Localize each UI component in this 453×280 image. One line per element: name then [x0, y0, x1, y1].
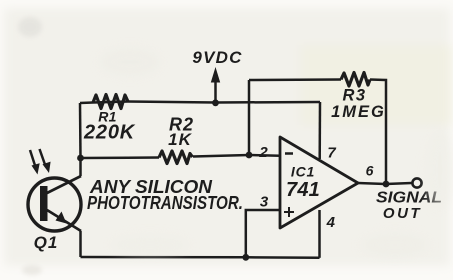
svg-text:6: 6 [366, 163, 374, 179]
transistor Q1: emitter lead [47, 210, 81, 231]
resistor R3 [341, 73, 370, 87]
terminal: signal out [412, 178, 421, 187]
node: Q1 collector / R2 junction [77, 155, 84, 162]
op-amp minus sign (inverting input) [285, 152, 293, 155]
svg-text:1K: 1K [168, 130, 192, 149]
wire: ground rail (bottom horizontal) [81, 256, 320, 259]
svg-text:220K: 220K [83, 122, 136, 144]
paper mottle [100, 48, 453, 257]
wire: 9VDC arrow stem [214, 75, 217, 103]
svg-text:741: 741 [286, 179, 320, 201]
svg-text:PHOTOTRANSISTOR.: PHOTOTRANSISTOR. [87, 192, 243, 213]
wire: R3 to output vertical [370, 80, 386, 185]
transistor Q1: collector lead [47, 176, 81, 193]
svg-text:4: 4 [326, 214, 336, 231]
svg-text:9VDC: 9VDC [192, 48, 242, 67]
svg-text:R3: R3 [342, 87, 366, 105]
wire: op-amp output (pin 6) to terminal [358, 183, 412, 184]
transistor Q1: emitter arrowhead [56, 212, 67, 224]
svg-text:OUT: OUT [383, 205, 422, 222]
node: pin-2 / feedback junction [246, 152, 253, 159]
node: 9VDC supply junction [212, 99, 219, 106]
wire: emitter to ground rail [79, 231, 82, 257]
wire: feedback vertical (pin-2 junction up, crossing +9V rail) [248, 80, 251, 155]
node: output / feedback junction [383, 181, 390, 188]
light arrow 2 [40, 149, 46, 166]
op-amp U1 (IC1 741) triangle [280, 137, 358, 228]
light arrow 1 [30, 150, 36, 167]
svg-text:7: 7 [327, 145, 336, 162]
wire: left vertical (R1 to Q1 collector node) [79, 103, 82, 158]
wire: junction down to Q1 collector [79, 158, 82, 176]
svg-text:3: 3 [260, 194, 269, 211]
arrowhead: 9VDC supply [211, 67, 220, 83]
svg-text:2: 2 [258, 144, 268, 161]
node: ground rail / pin 3 junction [242, 254, 249, 261]
wire: inverting input net (node to op-amp pin 2) with R2 [81, 156, 160, 159]
wire: +9V rail (top horizontal) [80, 102, 320, 104]
paper smudges [18, 17, 42, 37]
wire: R2 to pin-2 junction [193, 155, 249, 157]
transistor Q1: base bar [40, 186, 48, 221]
wire: junction to op-amp pin 2 [249, 154, 280, 157]
svg-text:IC1: IC1 [291, 164, 315, 180]
svg-text:1MEG: 1MEG [331, 103, 386, 121]
op-amp plus sign (non-inverting input) [284, 207, 294, 217]
transistor Q1: phototransistor circle [28, 178, 81, 231]
wire: feedback top horizontal to R3 [249, 78, 341, 81]
svg-text:Q1: Q1 [34, 233, 59, 252]
wire: pin 4 down to ground rail [318, 210, 321, 258]
resistor R1 [93, 95, 128, 109]
resistor R2 [159, 151, 193, 164]
wire: +9V rail corner down to pin 7 [318, 102, 321, 159]
wire: pin 3 from ground rail [246, 210, 280, 257]
